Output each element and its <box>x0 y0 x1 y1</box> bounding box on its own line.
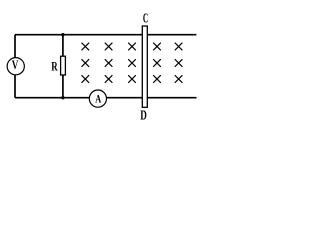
wire: bottom rail from left loop to right end <box>15 97 197 99</box>
svg-text:V: V <box>12 57 19 72</box>
ammeter A <box>89 90 106 107</box>
wire: resistor branch <box>62 35 64 98</box>
svg-text:D: D <box>140 108 147 122</box>
wire: top rail from left loop to right end <box>15 34 196 36</box>
voltmeter V <box>7 57 24 75</box>
magnetic field region (B into page, x marks) <box>82 43 183 83</box>
svg-text:A: A <box>95 93 101 105</box>
wire: left vertical branch through voltmeter <box>14 35 16 98</box>
svg-text:C: C <box>143 11 148 26</box>
svg-text:R: R <box>51 60 58 74</box>
sliding rod CD <box>142 26 147 107</box>
node: junction of resistor branch and top rail <box>61 33 64 36</box>
resistor R <box>51 56 65 75</box>
node: junction of resistor branch and bottom rail <box>61 96 64 99</box>
